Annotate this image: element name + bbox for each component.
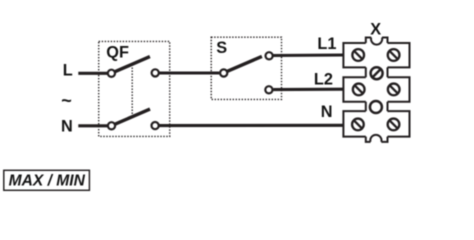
link channel X1-X2 [366,67,388,77]
terminal X2 housing [343,77,409,101]
terminal X1 housing [343,38,409,68]
svg-text:L1: L1 [317,35,336,53]
screw terminal X2 right [388,84,400,96]
wire QF to S [160,71,220,74]
wire N long [159,124,344,127]
QF pole2 right contact [152,122,159,129]
svg-text:MAX / MIN: MAX / MIN [9,173,86,190]
QF mechanical link (dotted) [131,65,133,117]
MAX/MIN mode box [4,170,90,190]
screw terminal X1 right [388,49,400,61]
breaker QF enclosure (dotted) [99,41,170,136]
screw terminal X3 right [388,119,400,131]
QF pole2 left contact [108,122,115,129]
svg-text:L: L [63,62,73,80]
screw terminal X2 left [353,84,365,96]
svg-text:N: N [61,117,73,135]
QF pole2 blade [115,109,150,124]
svg-text:~: ~ [61,91,72,111]
bridge contact X2-X3 (plain) [370,101,382,113]
S throw1 contact [266,52,273,59]
terminal X3 housing [343,111,409,142]
svg-text:QF: QF [106,43,129,61]
wire N to QF [78,124,107,127]
wire L to QF [78,72,107,75]
QF pole1 left contact [108,70,115,77]
S blade [227,56,262,71]
S throw2 contact [265,86,272,93]
switch S enclosure (dotted) [211,37,281,99]
link channel X2-X3 [366,102,388,111]
wire L1 [274,53,345,57]
QF pole1 blade [115,57,150,72]
screw terminal X3 left [352,119,364,131]
QF pole1 right contact [152,69,159,76]
S common contact [220,69,227,76]
bridge screw X1-X2 [371,67,383,79]
svg-text:L2: L2 [314,70,333,88]
svg-text:S: S [216,39,227,57]
svg-text:X: X [370,21,381,39]
wire L2 [273,88,344,92]
terminal block X outline [343,38,409,142]
screw terminal X1 left [352,49,364,61]
svg-text:N: N [321,103,333,121]
